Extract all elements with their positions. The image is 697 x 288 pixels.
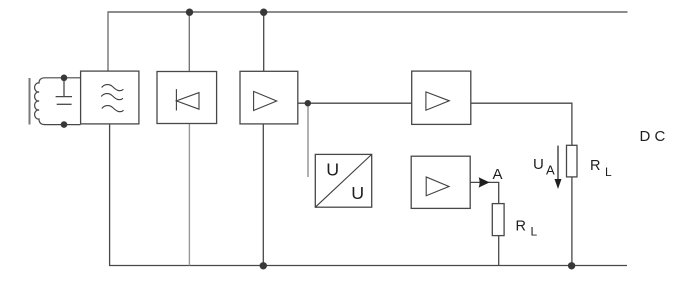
svg-text:L: L: [531, 225, 538, 239]
diode D1: [176, 89, 199, 110]
svg-text:U: U: [326, 160, 339, 180]
node bottom-left junction: [61, 121, 68, 128]
svg-text:A: A: [546, 162, 555, 177]
svg-text:U: U: [533, 156, 544, 173]
amplifier block U1: [240, 71, 298, 124]
svg-text:A: A: [493, 166, 503, 183]
arrow UA: [555, 146, 562, 189]
wire amp3 output to node A: [470, 182, 499, 203]
svg-text:L: L: [605, 165, 612, 179]
amp U1 triangle: [254, 91, 277, 110]
wire top bus: [107, 12, 627, 71]
svg-text:R: R: [516, 218, 526, 234]
antenna bar: [29, 78, 31, 125]
node bottom junction RL right: [568, 262, 575, 269]
wire diode top drop: [188, 12, 190, 72]
capacitor C1: [56, 78, 72, 105]
svg-text:R: R: [590, 158, 600, 174]
node top-left junction: [61, 75, 68, 82]
svg-text:U: U: [351, 183, 364, 203]
wire amp2 output to RL right: [471, 103, 572, 145]
wire amp1 top drop: [263, 12, 265, 71]
filter wave 2: [101, 94, 123, 100]
resistor RL left: [492, 204, 504, 236]
wire right RL to bottom bus: [571, 177, 573, 266]
amplifier block U3: [411, 156, 470, 208]
inductor L1: [35, 78, 81, 125]
wire amp1 output to amp2 input: [298, 102, 412, 104]
amplifier block U2: [412, 71, 471, 124]
amp U2 triangle: [426, 92, 449, 110]
arrowhead at node A: [479, 177, 490, 187]
node amp1 output junction: [305, 100, 311, 106]
wire amp1 bottom drop: [262, 124, 264, 266]
wire stub from output node down: [307, 103, 309, 177]
filter wave 3: [102, 106, 124, 112]
wire diode bottom drop: [188, 124, 190, 266]
filter block (bandpass): [81, 71, 139, 124]
U/U diagonal: [315, 154, 371, 207]
demodulator block: [157, 72, 217, 124]
wire left RL to bottom bus: [498, 236, 500, 266]
filter wave 1: [102, 85, 124, 91]
amp U3 triangle: [426, 177, 449, 196]
U/U converter block: [315, 154, 371, 207]
svg-text:D C: D C: [640, 128, 666, 145]
node top bus junction diode: [186, 9, 193, 16]
resistor RL right: [567, 145, 578, 177]
node top bus junction amp1: [260, 9, 267, 16]
wire bottom bus: [110, 124, 627, 266]
node bottom junction amp1: [260, 262, 267, 269]
